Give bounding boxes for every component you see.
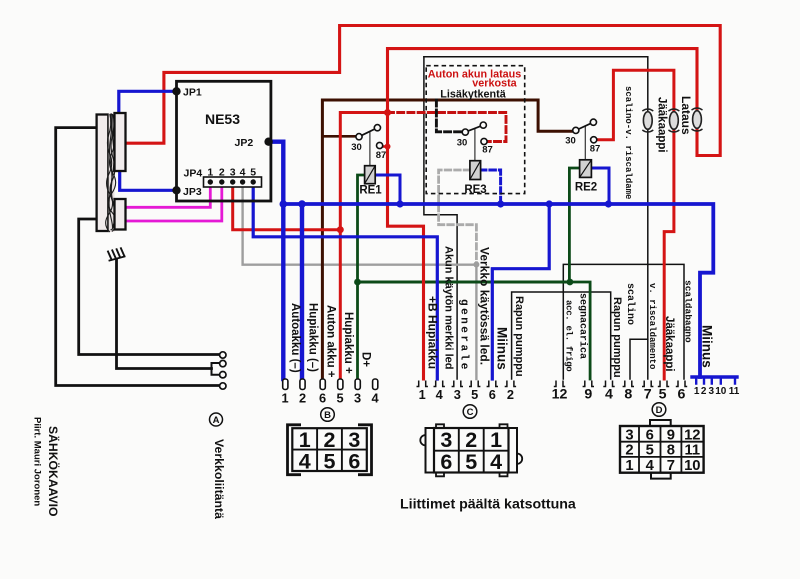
svg-text:10: 10 <box>715 386 727 397</box>
svg-text:Liittimet päältä katsottuna: Liittimet päältä katsottuna <box>400 497 576 513</box>
svg-text:Verkko käytössä led.: Verkko käytössä led. <box>478 247 492 365</box>
svg-text:1: 1 <box>694 386 700 397</box>
svg-text:6: 6 <box>678 387 686 403</box>
svg-text:87: 87 <box>590 144 601 155</box>
svg-text:Jääkaappi: Jääkaappi <box>656 97 668 153</box>
svg-text:1: 1 <box>490 428 502 452</box>
svg-text:1: 1 <box>299 428 311 452</box>
svg-text:4: 4 <box>299 449 311 473</box>
svg-text:scalino-v. riscaldame: scalino-v. riscaldame <box>623 86 633 199</box>
svg-text:generale: generale <box>458 299 470 372</box>
svg-text:5: 5 <box>659 387 667 403</box>
svg-text:4: 4 <box>490 450 502 474</box>
svg-text:Lisäkytkentä: Lisäkytkentä <box>440 88 506 100</box>
svg-text:NE53: NE53 <box>205 111 240 127</box>
svg-text:scalino: scalino <box>624 283 636 325</box>
svg-text:RE1: RE1 <box>359 185 382 197</box>
svg-text:3: 3 <box>454 387 461 402</box>
svg-text:11: 11 <box>729 386 740 397</box>
svg-text:Verkkoliitäntä: Verkkoliitäntä <box>212 439 226 519</box>
svg-text:4: 4 <box>436 387 444 402</box>
svg-text:Hupiakku (–): Hupiakku (–) <box>307 303 319 372</box>
svg-text:3: 3 <box>709 386 715 397</box>
svg-text:2: 2 <box>701 386 707 397</box>
svg-text:5: 5 <box>336 391 343 406</box>
svg-text:Miinus: Miinus <box>495 327 510 370</box>
svg-text:2: 2 <box>507 387 514 402</box>
svg-text:8: 8 <box>624 387 632 403</box>
svg-text:11: 11 <box>684 443 700 459</box>
svg-text:JP2: JP2 <box>235 137 254 149</box>
svg-text:6: 6 <box>348 449 360 473</box>
svg-text:RE2: RE2 <box>575 182 597 194</box>
svg-text:JP3: JP3 <box>183 186 202 198</box>
svg-text:3: 3 <box>625 428 633 444</box>
svg-text:3: 3 <box>348 428 360 452</box>
svg-text:B: B <box>324 410 331 421</box>
svg-text:JP4: JP4 <box>184 168 203 180</box>
svg-text:5: 5 <box>324 449 336 473</box>
svg-text:10: 10 <box>684 458 700 474</box>
svg-text:6: 6 <box>489 387 496 402</box>
svg-text:JP1: JP1 <box>183 86 202 98</box>
svg-text:4: 4 <box>646 458 655 474</box>
svg-text:1: 1 <box>419 387 426 402</box>
svg-text:Akun käytön merkki led: Akun käytön merkki led <box>443 246 455 370</box>
svg-text:1: 1 <box>207 167 213 179</box>
svg-text:9: 9 <box>667 428 675 444</box>
svg-text:4: 4 <box>240 167 246 179</box>
svg-text:D: D <box>656 405 663 416</box>
svg-text:Rapun pumppu: Rapun pumppu <box>611 297 623 378</box>
svg-text:12: 12 <box>552 387 568 403</box>
svg-text:v. riscaldamento: v. riscaldamento <box>647 283 657 369</box>
svg-text:2: 2 <box>219 167 225 179</box>
svg-text:6: 6 <box>319 391 326 406</box>
svg-text:Miinus: Miinus <box>700 325 715 368</box>
svg-text:acc. el. frigo: acc. el. frigo <box>564 300 574 371</box>
svg-text:3: 3 <box>440 428 452 452</box>
svg-text:D+: D+ <box>360 352 372 367</box>
svg-text:87: 87 <box>376 150 387 161</box>
svg-text:Piirt. Mauri Joronen: Piirt. Mauri Joronen <box>32 417 43 506</box>
svg-text:segnacarica: segnacarica <box>577 293 589 359</box>
svg-text:4: 4 <box>605 387 613 403</box>
svg-text:2: 2 <box>625 443 633 459</box>
svg-text:3: 3 <box>230 167 236 179</box>
svg-text:7: 7 <box>667 458 675 474</box>
svg-text:9: 9 <box>584 387 592 403</box>
svg-text:Rapun pumppu: Rapun pumppu <box>513 296 525 377</box>
svg-text:+B Hupiakku: +B Hupiakku <box>426 296 440 369</box>
svg-text:scaldabagno: scaldabagno <box>683 280 694 343</box>
svg-text:Auton akku +: Auton akku + <box>325 305 337 378</box>
svg-text:Hupiakku +: Hupiakku + <box>342 312 354 374</box>
svg-text:6: 6 <box>646 428 654 444</box>
svg-text:RE3: RE3 <box>464 184 486 196</box>
svg-text:Lataus: Lataus <box>679 96 693 135</box>
svg-text:4: 4 <box>371 391 379 406</box>
svg-text:30: 30 <box>351 142 362 153</box>
svg-text:A: A <box>213 415 220 426</box>
svg-text:30: 30 <box>565 136 576 147</box>
svg-text:2: 2 <box>299 391 306 406</box>
svg-text:7: 7 <box>644 387 652 403</box>
svg-text:2: 2 <box>465 428 477 452</box>
svg-text:3: 3 <box>354 391 361 406</box>
svg-text:Autoakku (–): Autoakku (–) <box>289 303 301 373</box>
svg-text:C: C <box>467 407 474 418</box>
svg-text:87: 87 <box>482 145 493 156</box>
svg-text:8: 8 <box>667 443 675 459</box>
svg-text:5: 5 <box>465 450 477 474</box>
svg-text:2: 2 <box>324 428 336 452</box>
svg-text:5: 5 <box>471 387 478 402</box>
svg-text:Jääkaappi: Jääkaappi <box>663 316 675 372</box>
svg-text:5: 5 <box>250 167 256 179</box>
svg-text:1: 1 <box>625 458 633 474</box>
svg-text:5: 5 <box>646 443 654 459</box>
svg-text:SÄHKÖKAAVIO: SÄHKÖKAAVIO <box>46 426 61 517</box>
svg-text:1: 1 <box>281 391 288 406</box>
svg-text:6: 6 <box>440 450 452 474</box>
svg-text:12: 12 <box>684 428 700 444</box>
svg-text:30: 30 <box>457 138 468 149</box>
